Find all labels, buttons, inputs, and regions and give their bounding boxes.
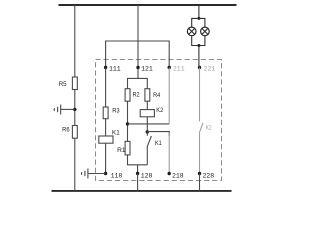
svg-text:111: 111: [109, 65, 121, 72]
wire: left branch from top bus: [74, 5, 76, 77]
resistor R6: [72, 126, 77, 139]
wire: junction to 218 branch: [147, 132, 169, 136]
node lamp top: [197, 17, 200, 20]
wire: socket to junction: [61, 108, 75, 110]
resistor R5: [72, 77, 77, 90]
dashed module enclosure: [96, 60, 222, 181]
svg-text:R6: R6: [62, 127, 70, 134]
svg-text:211: 211: [173, 65, 185, 72]
resistor R1: [125, 141, 130, 155]
wire: R3 to K1 coil: [105, 119, 107, 136]
wire: K2 coil down to contact junction: [146, 117, 148, 132]
contact K1 (NO): [146, 132, 148, 136]
node 221: [198, 66, 201, 69]
node 218: [168, 172, 171, 175]
svg-text:R4: R4: [153, 92, 161, 99]
svg-text:K1: K1: [112, 129, 120, 136]
lamp H2: [201, 27, 210, 36]
wire: grey 221 down to contact K2: [199, 68, 201, 122]
wire: grey riser to node 211: [168, 68, 170, 124]
svg-text:R3: R3: [112, 107, 120, 114]
resistor R2: [125, 89, 130, 102]
svg-text:218: 218: [172, 173, 184, 180]
wire: crossbar 111 to 211: [106, 41, 170, 68]
node junction R5/R6: [73, 108, 76, 111]
test socket (upper): [53, 108, 55, 111]
supply bus L+ (top): [59, 4, 237, 6]
wire: splitter to R2 / R4: [128, 78, 148, 88]
resistor R3: [103, 107, 108, 119]
wire: lamp bottom merge: [192, 36, 205, 46]
wire: lamp branch from top bus: [198, 5, 200, 18]
node K1 contact junction: [146, 130, 149, 133]
wire: socket to node 118: [88, 173, 106, 175]
lamp H1: [187, 27, 196, 36]
resistor R4: [145, 89, 150, 102]
wire: R4 to K2 coil: [146, 101, 148, 109]
svg-text:R5: R5: [59, 81, 67, 88]
svg-text:121: 121: [141, 65, 153, 72]
node 118: [104, 172, 107, 175]
wire: 121 branch from top bus: [137, 5, 139, 78]
wire: 111 down to R3: [105, 68, 107, 108]
svg-text:K2: K2: [206, 125, 212, 132]
wire: 128 to bottom bus: [137, 174, 139, 191]
svg-text:K1: K1: [155, 140, 162, 147]
wire: 228 to bottom bus: [199, 174, 201, 191]
wire: grey drop to node 218: [168, 133, 170, 174]
contact K2 (NO, grey): [199, 123, 203, 133]
node 228: [198, 172, 201, 175]
node R2/R1 junction: [126, 122, 129, 125]
wire: lamps to node 221: [198, 46, 200, 68]
relay coil K1: [99, 136, 113, 143]
wire: lamp top splitter: [192, 18, 205, 27]
wire: R6 to bottom bus: [74, 138, 76, 191]
svg-text:R1: R1: [117, 147, 126, 154]
test socket (lower): [80, 172, 82, 175]
relay coil K2: [140, 110, 154, 117]
wire: junction to 211 branch: [128, 123, 170, 125]
node 128: [136, 172, 139, 175]
node 121: [136, 66, 139, 69]
svg-text:228: 228: [203, 173, 215, 180]
node 111: [104, 66, 107, 69]
wire: merge R1 and K1 contact to node 128: [128, 155, 148, 165]
wire: grey contact to node 228: [199, 133, 201, 173]
node lamp bottom: [197, 44, 200, 47]
svg-text:R2: R2: [133, 92, 140, 99]
wire: K1 coil to node 118: [105, 143, 107, 173]
wire: R2 bottom to R1 top: [127, 101, 129, 141]
node 211: [168, 66, 171, 69]
wire: R5 to junction: [74, 90, 76, 126]
svg-text:128: 128: [141, 172, 153, 179]
svg-text:K2: K2: [156, 107, 163, 114]
return bus (bottom): [52, 190, 232, 192]
svg-text:118: 118: [111, 172, 123, 179]
svg-text:221: 221: [204, 66, 216, 73]
